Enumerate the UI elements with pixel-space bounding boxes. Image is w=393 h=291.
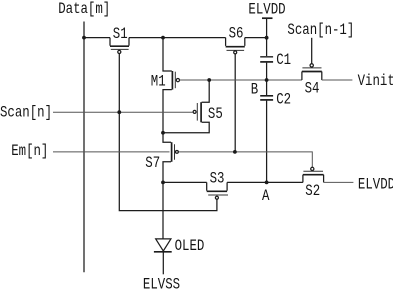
svg-text:S5: S5	[208, 106, 223, 124]
node B/S5 junction	[207, 78, 211, 82]
wire top rail S1-to-S6 segment	[129, 37, 226, 39]
svg-text:A: A	[262, 188, 270, 206]
svg-text:M1: M1	[151, 73, 166, 91]
svg-text:Scan[n]: Scan[n]	[0, 104, 52, 122]
capacitor C1	[260, 52, 291, 80]
svg-text:S7: S7	[145, 155, 160, 173]
wire top rail S6-to-ELVDD segment	[245, 37, 267, 39]
transistor S7	[145, 133, 178, 183]
node top-rail/M1 junction	[161, 36, 165, 40]
wire S1 gate to Scan[n] and down to S3 gate branch	[119, 54, 217, 211]
junction dots	[82, 36, 268, 185]
node A/OLED junction	[161, 181, 165, 185]
wire ELVDD feed	[266, 18, 268, 56]
transistor S4	[302, 38, 322, 98]
transistor S5	[163, 80, 223, 133]
svg-text:Vinit: Vinit	[358, 73, 393, 91]
transistor M1	[151, 38, 180, 133]
svg-text:OLED: OLED	[175, 238, 205, 256]
node Data/S1 junction	[82, 36, 86, 40]
wire Em[n] line left of S7	[53, 151, 170, 153]
diode OLED	[154, 182, 204, 274]
wire S6 gate to Em net	[234, 54, 236, 152]
wire S2 to ELVDD right	[324, 181, 354, 183]
svg-text:ELVDD: ELVDD	[248, 1, 285, 19]
node M1-drain/S5 junction	[161, 131, 165, 135]
svg-text:Data[m]: Data[m]	[58, 1, 110, 19]
wire node A line left segment	[163, 181, 207, 183]
transistor S1	[110, 26, 129, 54]
transistor S6	[226, 25, 245, 54]
svg-text:S2: S2	[305, 183, 320, 201]
svg-text:Em[n]: Em[n]	[11, 143, 48, 161]
svg-text:Scan[n-1]: Scan[n-1]	[287, 22, 354, 40]
svg-text:S6: S6	[229, 25, 244, 43]
node top-rail/ELVDD junction	[265, 36, 269, 40]
wire Data[m] vertical line	[83, 22, 85, 273]
svg-text:ELVSS: ELVSS	[143, 276, 180, 291]
svg-text:C2: C2	[276, 91, 291, 109]
wire Em net S7 to S6 gate and S2 gate	[178, 152, 312, 167]
svg-text:B: B	[251, 81, 259, 99]
transistor S2	[303, 167, 324, 200]
svg-text:ELVDD: ELVDD	[358, 176, 393, 194]
node Em/S6-gate junction	[233, 150, 237, 154]
capacitor C2	[260, 80, 291, 182]
power ELVDD T-bar symbol	[262, 17, 273, 19]
svg-text:S1: S1	[113, 26, 128, 44]
node Scan/S1-gate junction	[117, 110, 121, 114]
svg-text:C1: C1	[276, 52, 291, 70]
transistor S3	[207, 170, 228, 199]
wire node B line from M1 gate to S4	[180, 79, 302, 81]
svg-text:S3: S3	[210, 170, 225, 188]
wire top rail S1 left segment	[84, 37, 110, 39]
wire node A line middle segment	[227, 181, 303, 183]
node A/C2 junction	[265, 181, 269, 185]
node B/C1-C2 junction	[265, 78, 269, 82]
svg-text:S4: S4	[305, 80, 320, 98]
wire S4 to Vinit	[322, 79, 353, 81]
wire Scan[n] line	[53, 111, 193, 113]
